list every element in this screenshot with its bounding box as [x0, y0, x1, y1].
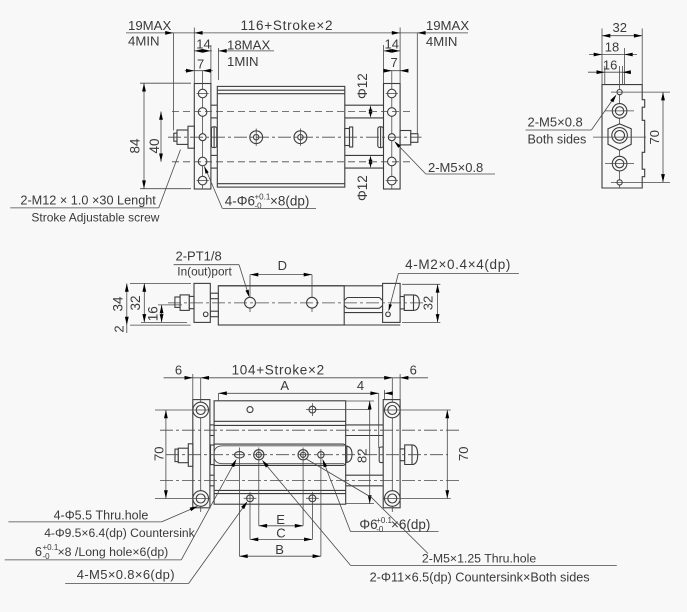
svg-text:1MIN: 1MIN	[227, 54, 259, 69]
svg-text:32: 32	[128, 295, 143, 310]
svg-text:B: B	[275, 542, 284, 557]
svg-text:6: 6	[35, 544, 42, 559]
svg-text:×6(dp): ×6(dp)	[391, 517, 430, 532]
svg-text:82: 82	[355, 449, 370, 463]
svg-text:7: 7	[391, 55, 398, 70]
svg-text:2-PT1/8: 2-PT1/8	[176, 249, 222, 264]
svg-text:116+Stroke×2: 116+Stroke×2	[241, 18, 334, 33]
svg-text:2-M5×0.8: 2-M5×0.8	[528, 115, 583, 130]
svg-text:18: 18	[605, 40, 619, 55]
svg-text:70: 70	[151, 446, 166, 460]
svg-text:2: 2	[112, 325, 127, 332]
svg-text:14: 14	[385, 36, 399, 51]
svg-text:4MIN: 4MIN	[426, 34, 458, 49]
svg-text:4: 4	[357, 378, 364, 393]
svg-text:34: 34	[111, 296, 126, 312]
svg-text:70: 70	[647, 130, 662, 144]
svg-text:4-M2×0.4×4(dp): 4-M2×0.4×4(dp)	[405, 257, 511, 272]
svg-text:C: C	[276, 525, 285, 540]
svg-text:2-M12 × 1.0 ×30 Lenght: 2-M12 × 1.0 ×30 Lenght	[20, 194, 156, 208]
svg-text:Stroke Adjustable screw: Stroke Adjustable screw	[31, 211, 159, 225]
svg-text:Φ12: Φ12	[355, 175, 370, 201]
svg-text:2-M5×0.8: 2-M5×0.8	[428, 160, 483, 175]
svg-text:70: 70	[456, 446, 471, 460]
svg-text:D: D	[278, 258, 287, 273]
svg-text:2-M5×1.25 Thru.hole: 2-M5×1.25 Thru.hole	[422, 552, 536, 566]
svg-text:18MAX: 18MAX	[227, 38, 270, 53]
svg-text:×8(dp): ×8(dp)	[270, 194, 309, 209]
svg-text:+0.1: +0.1	[255, 193, 271, 202]
svg-text:40: 40	[147, 138, 162, 153]
svg-text:104+Stroke×2: 104+Stroke×2	[232, 363, 325, 378]
svg-text:4-Φ5.5 Thru.hole: 4-Φ5.5 Thru.hole	[54, 509, 149, 523]
svg-text:14: 14	[196, 36, 210, 51]
svg-text:16: 16	[145, 306, 160, 321]
svg-text:2-Φ11×6.5(dp) Countersink×Bot: 2-Φ11×6.5(dp) Countersink×Both sides	[370, 571, 590, 585]
svg-text:+0.1: +0.1	[43, 543, 59, 552]
svg-text:4-Φ6: 4-Φ6	[225, 194, 255, 209]
svg-text:-0: -0	[255, 202, 263, 211]
svg-text:16: 16	[603, 57, 617, 72]
svg-text:×8 /Long hole×6(dp): ×8 /Long hole×6(dp)	[58, 545, 169, 559]
svg-text:7: 7	[197, 57, 204, 72]
svg-text:Φ6: Φ6	[359, 517, 377, 532]
svg-text:Both sides: Both sides	[528, 133, 587, 147]
svg-text:Φ12: Φ12	[355, 73, 370, 99]
svg-text:-0: -0	[376, 525, 384, 534]
svg-text:A: A	[280, 378, 289, 393]
svg-text:19MAX: 19MAX	[128, 18, 171, 33]
svg-text:4-Φ9.5×6.4(dp) Countersink: 4-Φ9.5×6.4(dp) Countersink	[44, 526, 195, 540]
svg-text:32: 32	[613, 20, 627, 35]
svg-text:In(out)port: In(out)port	[177, 265, 232, 279]
svg-text:84: 84	[128, 138, 143, 154]
svg-text:4MIN: 4MIN	[128, 34, 160, 49]
svg-text:6: 6	[175, 363, 182, 378]
svg-text:19MAX: 19MAX	[426, 18, 469, 33]
svg-text:4-M5×0.8×6(dp): 4-M5×0.8×6(dp)	[77, 567, 175, 582]
svg-text:6: 6	[410, 363, 417, 378]
